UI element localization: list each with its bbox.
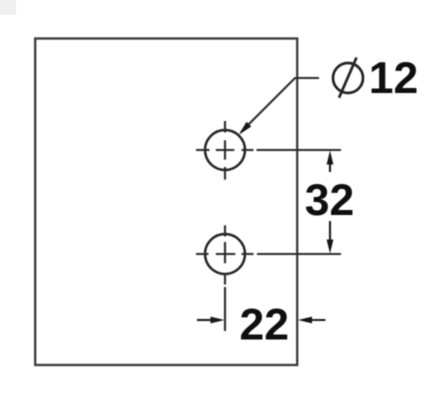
plate outline rectangle (35, 39, 297, 366)
extension line from H2 to dim 32 (257, 253, 341, 255)
diameter symbol circle (333, 63, 363, 93)
dim 32 lower arrow stem (329, 221, 331, 242)
extension line below H2 to dim 22 (224, 287, 226, 331)
dim 32 lower arrowhead (327, 240, 334, 254)
dim 22 right arrowhead (298, 317, 312, 324)
svg-text:12: 12 (369, 54, 419, 103)
leader line to diameter label (241, 78, 319, 132)
hole H2 center mark horizontal (196, 253, 254, 255)
dim 22 right arrow tail (309, 319, 326, 321)
hole H2 circle (bottom) (205, 234, 245, 274)
hole H2 center mark vertical (224, 225, 226, 284)
faint corner artifact patch (0, 0, 16, 15)
svg-text:32: 32 (305, 176, 355, 225)
hole H1 center mark vertical (224, 121, 226, 180)
extension line from H1 to dim 32 (257, 149, 342, 151)
dim 32 upper arrowhead (327, 151, 334, 165)
hole H1 circle (top) (205, 130, 245, 170)
hole H1 center mark horizontal (196, 149, 254, 151)
diameter symbol slash (339, 58, 357, 98)
svg-text:22: 22 (240, 300, 290, 349)
dim 22 left arrow tail (197, 319, 213, 321)
leader arrowhead (239, 122, 251, 135)
dim 22 left arrowhead (211, 317, 225, 324)
dim 32 upper arrow stem (329, 162, 331, 172)
